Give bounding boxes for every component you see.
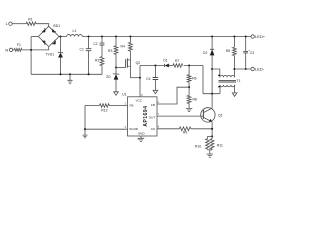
svg-text:CS: CS [151,127,155,131]
junction switch node mid [211,93,213,95]
junction D2 top [211,35,213,37]
wire rail to R5 [233,37,235,48]
wire corner to switch node [203,93,220,95]
junction R4 top [129,35,131,37]
wire to bridge left vertex [31,36,38,38]
svg-text:R9: R9 [183,131,187,135]
wire N to F1 [13,49,14,51]
ground earth R10 R11 [207,150,213,157]
wire Q1 emitter down [211,122,213,137]
svg-text:D2: D2 [203,51,207,55]
wire R2 to bottom rail [101,66,103,75]
svg-text:R6: R6 [192,77,196,81]
wire VCC riser and stub to pin [139,66,141,97]
svg-text:R12: R12 [101,109,107,113]
capacitor C2 [100,37,105,57]
svg-text:R4: R4 [121,45,125,49]
wire aux winding left lead [219,85,221,94]
junction ground stub [69,73,71,75]
svg-text:6: 6 [158,127,160,129]
ground earth SGND [83,129,88,138]
svg-text:LED-: LED- [255,66,265,71]
junction C2 top [101,35,103,37]
wire Q1 collector [211,94,213,109]
svg-text:VCC: VCC [136,99,143,103]
junction C1 top [88,35,90,37]
wire VCC to D1 [140,65,164,67]
svg-text:ZD: ZD [106,75,111,79]
wire FB node to FB pin [157,87,189,104]
resistor R3 [114,46,118,55]
svg-text:U1: U1 [122,92,126,96]
svg-text:Q1: Q1 [218,114,223,118]
ground arrow T1 [232,93,237,97]
junction C4 top [154,64,156,66]
wire gate node to Q2 gate [116,67,126,69]
junction F1 node [30,49,32,51]
resistor R5 [233,47,237,55]
junction C3 bottom [245,68,247,70]
junction R6 top [188,64,190,66]
top rail wire [82,36,251,38]
terminal L [9,22,12,25]
svg-text:L: L [6,21,9,26]
junction gate node [115,66,117,68]
svg-text:R8: R8 [193,98,197,102]
junction C3 top [245,35,247,37]
wire R1 to bridge top [36,24,49,27]
svg-text:C4: C4 [146,77,150,81]
bridge rectifier BD1 [38,26,59,46]
wire OUT to Q1 base [157,115,203,117]
wire R9 to emitter node [191,128,212,130]
wire R10 R11 bottom bar [208,149,213,151]
svg-text:Q2: Q2 [136,61,141,65]
bottom rail wire [31,73,102,75]
junction R10 R11 top [211,135,213,137]
wire rail to R3 [115,37,117,46]
svg-text:FB: FB [151,103,155,107]
junction SGND node [84,128,86,130]
junction TVS bottom [59,73,61,75]
svg-text:TVS1: TVS1 [46,52,55,56]
diode D2 [210,37,214,94]
transistor Q2 [126,51,131,78]
svg-text:R3: R3 [108,49,112,53]
wire L to R1 [12,23,26,25]
wire Q2 source to VCC node [130,77,140,79]
terminal LED+ [251,35,254,38]
resistor R8 [187,87,191,108]
capacitor C1 [86,37,92,75]
wire CS to R9 [157,128,179,130]
junction FB node [188,86,190,88]
wire T1 secondary right to ground [234,85,236,93]
svg-text:R5: R5 [226,49,230,53]
wire left loop vertical [30,37,32,75]
resistor R10 [206,136,210,149]
svg-text:L1: L1 [73,29,77,33]
resistor R7 [173,64,183,68]
svg-text:D1: D1 [163,59,167,63]
junction CS node [211,128,213,130]
wire F1 to bridge bottom vertex [22,47,49,50]
resistor R4 [129,42,133,51]
wire D2 to T1 primary left [212,69,220,77]
ground earth under bridge [67,74,72,83]
svg-text:F1: F1 [17,43,21,47]
TVS diode TVS1 [58,37,63,75]
terminal N [9,48,12,51]
wire R7 to corner [184,66,203,94]
svg-text:OUT: OUT [149,115,156,119]
fuse F1 [14,48,22,51]
ic U1 AP1694 [128,97,158,136]
diode D1 [165,64,173,67]
resistor R2 [100,57,104,66]
wire R3 to gate node [115,54,117,67]
junction VCC node [139,77,141,79]
transistor Q1 [201,108,215,122]
capacitor C3 [243,37,248,70]
wire SGND to ground [85,106,128,130]
transformer T1 [218,74,236,87]
svg-text:C1: C1 [80,47,84,51]
ground earth GND pin [138,136,144,142]
wire bridge right vertex to L1 [59,36,67,38]
junction LED- node R5 [233,68,235,70]
ground earth R8 [186,108,192,111]
svg-text:R10: R10 [195,145,201,149]
svg-text:FB: FB [130,104,134,108]
wire R5 to T1 primary right [233,56,235,77]
svg-text:R11: R11 [217,144,223,148]
resistor R12 [100,104,110,108]
wire R12 to FB pin [109,105,127,107]
junction D2 bottom [211,68,213,70]
inductor L1 [67,35,83,37]
terminal LED- [251,67,254,70]
resistor R11 [210,136,214,149]
svg-text:R2: R2 [95,59,99,63]
ground arrow C4 [153,90,158,94]
svg-text:BD1: BD1 [53,24,60,28]
ground arrow ZD [114,92,119,96]
svg-text:GND: GND [138,131,146,135]
junction TVS top [59,35,61,37]
wire LED- rail [234,68,251,70]
junction C1 bottom [88,73,90,75]
resistor R6 [187,66,191,88]
junction R5 top [233,35,235,37]
capacitor C4 [153,66,159,91]
svg-text:C2: C2 [93,42,97,46]
resistor R9 [179,127,190,131]
junction R3 top [115,35,117,37]
wire rail to R4 [129,37,131,43]
svg-text:LED+: LED+ [255,34,266,39]
svg-text:T1: T1 [237,79,241,83]
wire R10 R11 top bar [208,135,213,137]
svg-text:C3: C3 [250,51,254,55]
resistor R1 [26,22,36,25]
svg-text:R7: R7 [175,59,179,63]
zener ZD [113,68,119,92]
svg-text:R1: R1 [28,18,33,22]
svg-text:N: N [5,47,8,52]
